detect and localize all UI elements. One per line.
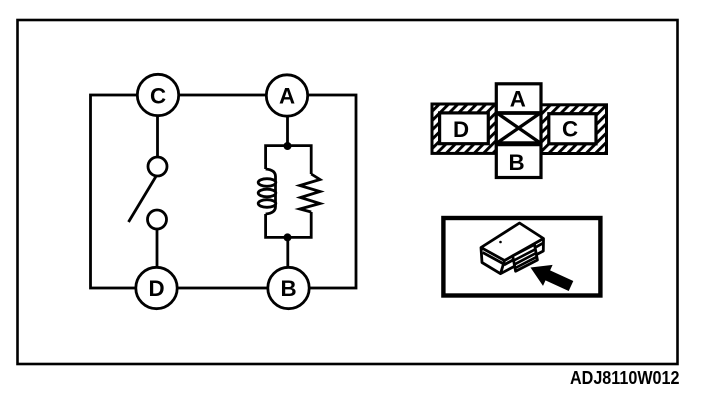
svg-text:B: B — [508, 150, 524, 175]
svg-text:ADJ8110W012: ADJ8110W012 — [570, 367, 680, 388]
svg-text:D: D — [148, 276, 164, 301]
svg-text:B: B — [280, 276, 296, 301]
svg-text:A: A — [279, 84, 295, 109]
svg-text:C: C — [150, 83, 166, 108]
svg-text:A: A — [510, 86, 526, 111]
svg-text:D: D — [453, 117, 469, 142]
svg-text:C: C — [562, 117, 578, 142]
